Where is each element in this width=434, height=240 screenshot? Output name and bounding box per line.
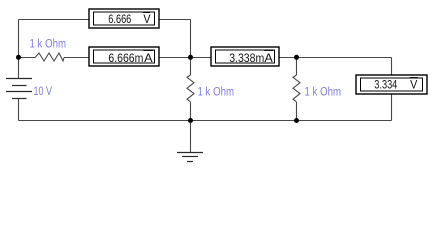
- svg-text:10 V: 10 V: [34, 86, 53, 98]
- svg-text:A: A: [264, 51, 272, 65]
- svg-text:3.338m: 3.338m: [229, 51, 264, 65]
- svg-text:V: V: [143, 12, 150, 26]
- svg-text:6.666m: 6.666m: [108, 51, 143, 65]
- svg-text:V: V: [410, 78, 417, 92]
- svg-text:1 k Ohm: 1 k Ohm: [305, 87, 342, 99]
- svg-text:1 k Ohm: 1 k Ohm: [198, 87, 235, 99]
- svg-text:6.666: 6.666: [108, 12, 131, 26]
- svg-text:1 k Ohm: 1 k Ohm: [30, 39, 67, 51]
- svg-text:A: A: [144, 51, 152, 65]
- svg-text:3.334: 3.334: [374, 78, 397, 92]
